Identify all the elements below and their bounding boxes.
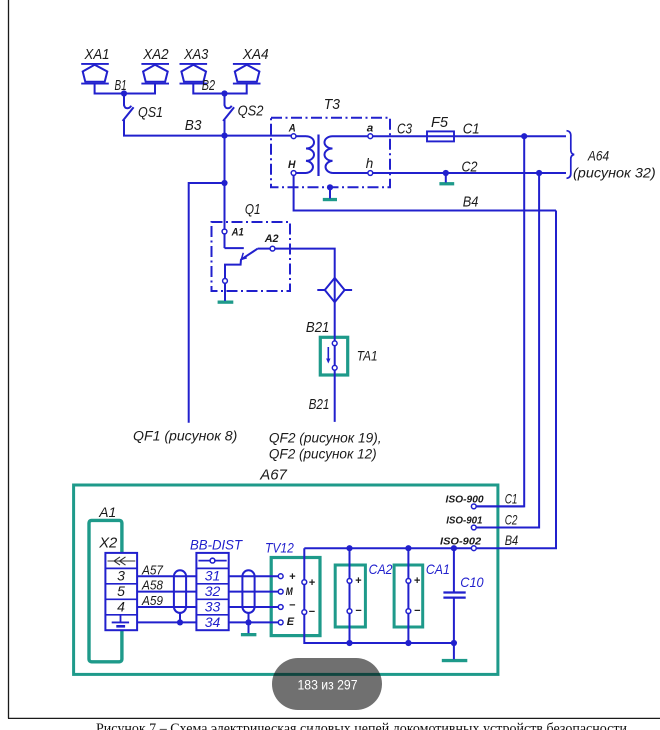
svg-text:CA2: CA2 [369,561,393,577]
svg-text:QF1 (рисунок 8): QF1 (рисунок 8) [133,427,237,443]
svg-text:h: h [366,156,374,171]
svg-text:M: M [286,586,294,598]
svg-text:C2: C2 [462,158,479,175]
svg-text:+: + [355,575,362,587]
svg-text:183 из 297: 183 из 297 [298,677,358,693]
svg-text:XA4: XA4 [242,46,269,63]
svg-text:Рисунок 7 – Схема электрическа: Рисунок 7 – Схема электрическая силовых … [96,721,627,730]
svg-text:B2: B2 [202,77,216,94]
svg-text:+: + [309,577,316,589]
svg-text:32: 32 [205,583,221,599]
svg-text:A2: A2 [264,233,279,245]
svg-text:A59: A59 [141,593,163,608]
svg-text:A: A [288,123,296,135]
svg-text:A1: A1 [98,504,116,520]
svg-text:QF2 (рисунок 12): QF2 (рисунок 12) [269,446,377,462]
svg-text:3: 3 [117,568,125,584]
svg-text:XA3: XA3 [183,46,209,63]
svg-text:A64: A64 [587,147,609,163]
svg-text:−: − [309,606,316,618]
svg-text:T3: T3 [324,96,341,113]
svg-text:5: 5 [117,583,125,599]
svg-text:C10: C10 [460,574,483,590]
svg-text:+: + [289,571,296,583]
svg-text:−: − [289,600,296,612]
svg-text:C2: C2 [505,511,518,527]
svg-text:C1: C1 [463,120,480,137]
svg-text:A57: A57 [141,562,164,577]
svg-text:Q1: Q1 [245,201,261,218]
svg-text:XA1: XA1 [84,46,110,63]
svg-text:B1: B1 [115,77,127,94]
svg-text:XA2: XA2 [142,46,169,63]
svg-text:E: E [287,616,295,628]
svg-text:A58: A58 [141,578,164,593]
svg-text:B4: B4 [463,193,479,210]
svg-text:C3: C3 [397,120,413,137]
svg-text:TA1: TA1 [357,347,378,363]
svg-text:C1: C1 [505,490,518,506]
svg-text:H: H [288,159,296,171]
svg-text:4: 4 [117,599,125,615]
svg-text:ISO-901: ISO-901 [446,516,483,527]
svg-text:a: a [367,123,374,135]
svg-text:BB-DIST: BB-DIST [190,538,244,553]
svg-text:ISO-902: ISO-902 [440,536,482,547]
svg-text:A67: A67 [259,467,287,484]
svg-text:QS1: QS1 [138,104,163,121]
svg-text:A1: A1 [231,226,244,238]
svg-text:−: − [414,605,421,617]
svg-text:+: + [414,575,421,587]
svg-text:−: − [355,605,362,617]
svg-text:X2: X2 [98,535,118,552]
svg-text:F5: F5 [431,114,449,131]
svg-text:B21: B21 [309,396,330,413]
svg-text:B3: B3 [185,117,202,134]
svg-text:QF2 (рисунок 19),: QF2 (рисунок 19), [269,430,382,446]
svg-text:ISO-900: ISO-900 [446,495,485,506]
svg-text:(рисунок 32): (рисунок 32) [573,165,656,181]
svg-text:B21: B21 [306,319,330,336]
svg-text:34: 34 [205,614,221,630]
svg-text:B4: B4 [505,532,519,548]
svg-text:33: 33 [205,599,221,615]
svg-text:31: 31 [205,568,221,584]
svg-text:QS2: QS2 [238,103,264,120]
svg-text:CA1: CA1 [426,561,450,577]
svg-text:TV12: TV12 [265,539,294,555]
